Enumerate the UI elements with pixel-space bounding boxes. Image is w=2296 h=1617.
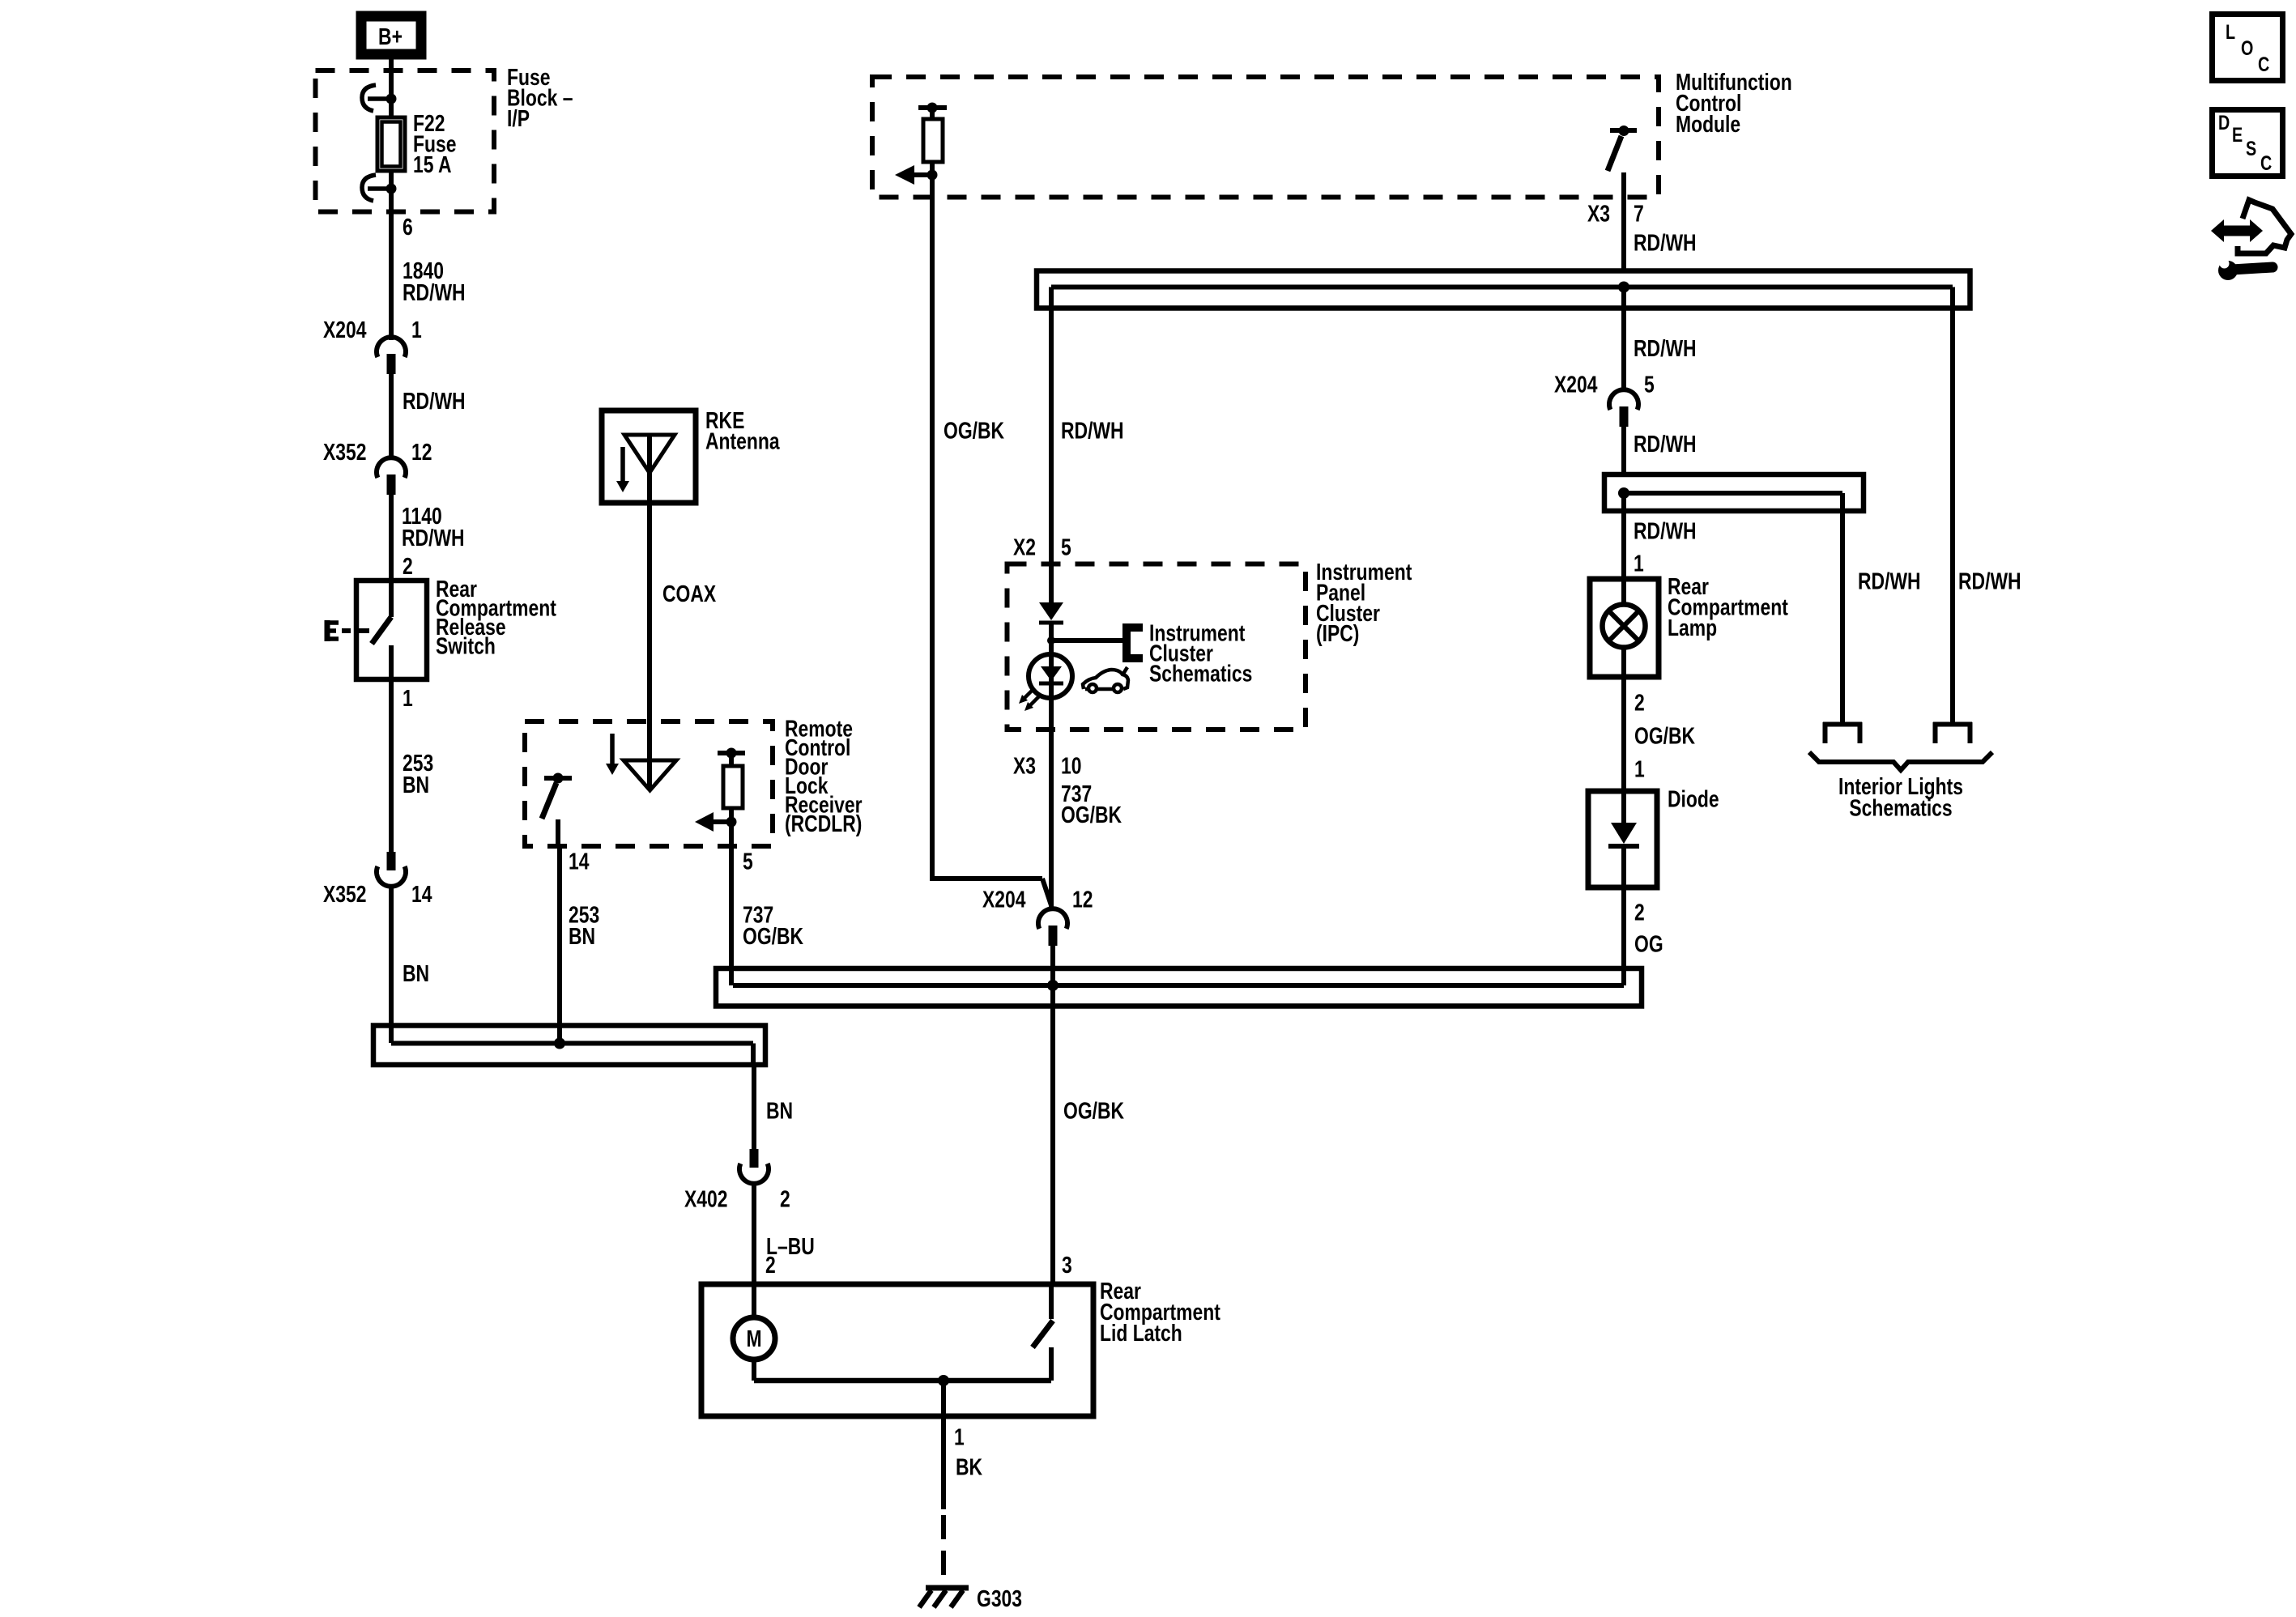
svg-text:2: 2 <box>1634 689 1645 716</box>
svg-text:(IPC): (IPC) <box>1316 620 1359 647</box>
svg-text:B+: B+ <box>378 23 403 49</box>
svg-text:BK: BK <box>956 1453 982 1480</box>
svg-text:2: 2 <box>780 1185 790 1212</box>
svg-text:Schematics: Schematics <box>1849 794 1952 821</box>
svg-text:Module: Module <box>1676 110 1740 137</box>
svg-text:1: 1 <box>1634 755 1645 782</box>
svg-text:E: E <box>2232 124 2243 147</box>
svg-text:G303: G303 <box>977 1585 1022 1611</box>
svg-text:2: 2 <box>1634 899 1645 926</box>
svg-text:Lid Latch: Lid Latch <box>1100 1319 1182 1346</box>
svg-text:Lamp: Lamp <box>1668 614 1717 640</box>
svg-text:X2: X2 <box>1013 534 1036 560</box>
svg-text:(RCDLR): (RCDLR) <box>785 810 862 836</box>
svg-text:X204: X204 <box>323 316 367 343</box>
svg-text:6: 6 <box>403 213 413 240</box>
svg-text:RD/WH: RD/WH <box>1634 334 1697 361</box>
svg-text:S: S <box>2246 138 2256 160</box>
svg-text:RD/WH: RD/WH <box>403 279 466 305</box>
svg-text:C: C <box>2258 53 2269 76</box>
svg-text:BN: BN <box>766 1097 793 1124</box>
svg-text:RD/WH: RD/WH <box>1634 229 1697 256</box>
svg-text:1: 1 <box>411 316 422 343</box>
svg-text:2: 2 <box>765 1251 776 1278</box>
svg-text:RD/WH: RD/WH <box>1858 568 1921 594</box>
svg-text:I/P: I/P <box>507 104 530 131</box>
svg-text:2: 2 <box>403 552 413 579</box>
svg-text:12: 12 <box>1072 886 1093 913</box>
svg-text:O: O <box>2241 37 2253 60</box>
svg-text:X3: X3 <box>1013 752 1036 779</box>
svg-text:OG/BK: OG/BK <box>1634 722 1695 749</box>
svg-text:X352: X352 <box>323 438 366 465</box>
svg-text:3: 3 <box>1062 1251 1072 1278</box>
svg-text:L: L <box>2226 21 2235 44</box>
svg-text:OG: OG <box>1634 930 1663 957</box>
svg-text:14: 14 <box>411 880 432 907</box>
svg-text:1: 1 <box>1634 550 1644 577</box>
svg-text:X402: X402 <box>684 1185 727 1212</box>
svg-text:RD/WH: RD/WH <box>1061 417 1124 444</box>
svg-text:Switch: Switch <box>436 632 496 659</box>
svg-text:C: C <box>2260 152 2272 175</box>
svg-text:M: M <box>746 1325 761 1351</box>
svg-text:1: 1 <box>403 684 413 711</box>
svg-text:X204: X204 <box>982 886 1026 913</box>
svg-text:X352: X352 <box>323 880 366 907</box>
svg-text:RD/WH: RD/WH <box>1958 568 2021 594</box>
svg-text:X3: X3 <box>1587 200 1610 227</box>
svg-text:1: 1 <box>954 1423 965 1450</box>
svg-text:10: 10 <box>1061 752 1081 779</box>
svg-text:15 A: 15 A <box>413 151 452 177</box>
svg-text:COAX: COAX <box>662 580 717 606</box>
svg-text:7: 7 <box>1634 200 1644 227</box>
svg-text:BN: BN <box>569 922 595 949</box>
svg-text:RD/WH: RD/WH <box>402 524 465 551</box>
svg-text:BN: BN <box>403 771 429 798</box>
svg-text:BN: BN <box>403 960 429 986</box>
svg-text:OG/BK: OG/BK <box>944 417 1004 444</box>
svg-text:Diode: Diode <box>1668 785 1719 812</box>
svg-text:RD/WH: RD/WH <box>403 387 466 414</box>
svg-text:Schematics: Schematics <box>1149 660 1252 687</box>
svg-text:Antenna: Antenna <box>705 428 780 454</box>
svg-text:X204: X204 <box>1554 371 1598 398</box>
svg-text:RD/WH: RD/WH <box>1634 517 1697 544</box>
svg-text:OG/BK: OG/BK <box>1063 1097 1124 1124</box>
svg-text:D: D <box>2218 112 2230 134</box>
svg-text:5: 5 <box>743 848 753 874</box>
svg-text:OG/BK: OG/BK <box>743 922 803 949</box>
svg-text:OG/BK: OG/BK <box>1061 801 1122 828</box>
svg-text:12: 12 <box>411 438 432 465</box>
svg-text:14: 14 <box>569 848 590 874</box>
svg-text:5: 5 <box>1061 534 1071 560</box>
svg-text:RD/WH: RD/WH <box>1634 430 1697 457</box>
svg-text:5: 5 <box>1644 371 1655 398</box>
